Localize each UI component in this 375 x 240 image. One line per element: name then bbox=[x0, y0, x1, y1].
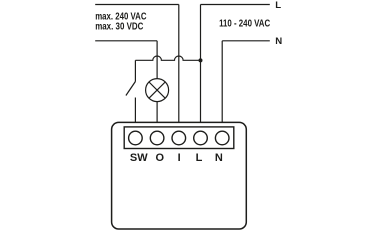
svg-text:max. 30 VDC: max. 30 VDC bbox=[95, 21, 143, 32]
svg-text:N: N bbox=[275, 36, 282, 47]
wire: lamp upper vertical (mid rail down to lamp top) bbox=[156, 41, 158, 79]
wire: top rail from free end to I terminal corner bbox=[95, 4, 179, 6]
wire: lamp lower vertical (lamp bottom down into device, O terminal) bbox=[156, 102, 158, 123]
wire: N terminal vertical bbox=[221, 41, 223, 123]
switch S1 (upper lead, blade, lower lead) bbox=[126, 60, 135, 122]
terminal L bbox=[194, 131, 208, 145]
terminal SW bbox=[129, 131, 143, 145]
wire: hop wire from switch top to L wire (jumps over O and I wires) bbox=[135, 56, 200, 60]
wire: L terminal vertical bbox=[200, 5, 202, 123]
terminal I bbox=[172, 131, 186, 145]
wire: I terminal vertical (from top rail down into device) bbox=[178, 5, 180, 123]
wire: N rail to the right bbox=[222, 40, 270, 42]
terminal N bbox=[215, 131, 229, 145]
junction dot on L wire bbox=[199, 58, 203, 62]
svg-text:I: I bbox=[178, 152, 181, 164]
wire: L rail to the right bbox=[201, 4, 270, 6]
device U1: Shelly relay body bbox=[112, 122, 247, 229]
svg-text:L: L bbox=[196, 152, 203, 164]
wire: mid rail from free end to lamp wire corner bbox=[95, 40, 157, 42]
terminal strip bbox=[124, 127, 234, 149]
svg-text:O: O bbox=[156, 152, 165, 164]
svg-text:110 - 240 VAC: 110 - 240 VAC bbox=[219, 19, 270, 30]
svg-text:SW: SW bbox=[130, 152, 148, 164]
svg-text:L: L bbox=[275, 0, 281, 11]
lamp (circle with X) bbox=[146, 79, 169, 102]
svg-text:N: N bbox=[215, 152, 223, 164]
terminal O bbox=[150, 131, 164, 145]
